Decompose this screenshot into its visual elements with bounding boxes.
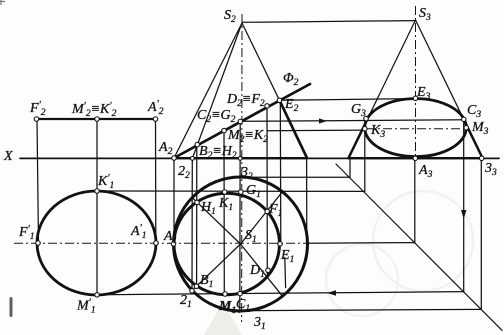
svg-text:X: X bbox=[3, 149, 13, 164]
point C3 bbox=[462, 117, 467, 122]
point C2G2 bbox=[238, 119, 243, 124]
point 22 bbox=[191, 157, 195, 161]
wire vertical base corner to plan circle right bbox=[306, 158, 308, 243]
plan generator S1-F1 extended to base circle bbox=[241, 191, 283, 244]
auxiliary view baseline F'2-A'2 (thick) bbox=[37, 118, 156, 120]
wire S2-S3 apex connector bbox=[243, 21, 416, 23]
svg-text:M2≡K2: M2≡K2 bbox=[227, 128, 268, 145]
major axis K3-M3 (dash-dot) bbox=[366, 128, 466, 130]
45 degree transfer line bbox=[336, 164, 502, 330]
point M'2K'2 bbox=[95, 117, 100, 122]
wire vertical E1 to plan ellipse edge bbox=[284, 258, 287, 288]
svg-text:D2≡F2: D2≡F2 bbox=[226, 92, 265, 109]
point M'1 bbox=[95, 293, 100, 298]
point K'1 bbox=[95, 189, 100, 194]
wire vertical up to A3 bbox=[414, 158, 416, 242]
wire vertical M2K2-M1 bbox=[223, 131, 225, 292]
transfer M2K2 to K3 bbox=[268, 129, 365, 132]
cone frontal right generator lower (thick outline) bbox=[280, 100, 308, 158]
point A3 bbox=[413, 156, 418, 161]
point E3 bbox=[413, 96, 418, 101]
point 32 bbox=[238, 157, 242, 161]
corner artifact top-left bbox=[0, 0, 5, 5]
cutting plane trace Phi2 (thick) bbox=[174, 84, 310, 158]
transfer C2G2 to C3 bbox=[244, 120, 464, 122]
point K3 bbox=[363, 126, 368, 131]
wire vertical up to K3 G3 bbox=[364, 119, 366, 191]
transfer K'1-K1 to 45 line bbox=[97, 190, 365, 192]
wire vertical 32-31 C2G2-C1 bbox=[239, 122, 241, 311]
point D2F2 bbox=[265, 104, 270, 109]
transfer plan circle top to profile base corner bbox=[241, 176, 351, 178]
point G1 bbox=[239, 190, 244, 195]
point M2K2 bbox=[222, 128, 227, 133]
wire vertical up to C3 M3 bbox=[463, 120, 465, 292]
arrow down on C3M3 vertical bbox=[461, 210, 466, 219]
true shape ellipse (thick) bbox=[37, 191, 156, 295]
point 21 bbox=[190, 289, 195, 294]
point E1 bbox=[278, 242, 283, 247]
transfer A depth line bbox=[307, 242, 415, 245]
generator S2 to point 22 bbox=[192, 23, 242, 158]
cone profile right generator upper (thin) bbox=[416, 20, 465, 120]
point 31 (filled) bbox=[238, 310, 241, 313]
point 33 bbox=[479, 156, 484, 161]
point M1 bbox=[223, 292, 228, 297]
transfer M'1-M1-C1 to 45 line bbox=[97, 292, 464, 295]
point C1 bbox=[238, 291, 243, 296]
wire vertical A2-A1 bbox=[173, 158, 175, 242]
point A'1 bbox=[154, 241, 159, 246]
point D1 bbox=[266, 268, 271, 273]
arrow right on C2G2 transfer bbox=[319, 118, 327, 123]
point E2 bbox=[277, 98, 282, 103]
wire vertical to profile left corner bbox=[349, 158, 351, 177]
edge smudge bottom-left bbox=[10, 297, 13, 317]
transfer E2 to E3 bbox=[282, 99, 416, 101]
point K1 bbox=[222, 190, 227, 195]
watermark circle small bbox=[326, 244, 398, 316]
point A2 bbox=[172, 156, 177, 161]
point H1 bbox=[195, 200, 200, 205]
wire vertical up to 33 bbox=[480, 158, 482, 309]
cone base circle in plan (thick) bbox=[174, 177, 308, 311]
plan generator S1-D1 extended to base circle bbox=[241, 244, 284, 297]
point B2H2 bbox=[195, 142, 200, 147]
point F'2 bbox=[34, 117, 39, 122]
arrow left on M transfer bbox=[327, 290, 336, 296]
cone profile base (thick) bbox=[349, 157, 483, 159]
section ellipse in profile (thick) bbox=[365, 99, 467, 157]
X axis bbox=[20, 157, 499, 159]
transfer 31 depth line bbox=[248, 309, 481, 310]
point M3 bbox=[464, 125, 469, 130]
axis of cone profile (dash-dot) bbox=[415, 6, 417, 158]
point F'1 bbox=[36, 241, 41, 246]
horizontal centre line plan and true shape (dash-dot) bbox=[14, 242, 310, 244]
point S1 (filled) bbox=[239, 243, 242, 246]
watermark wedge bottom-center bbox=[204, 302, 242, 335]
axis of cone frontal and plan (dash-dot) bbox=[241, 14, 243, 322]
svg-text:C2≡G2: C2≡G2 bbox=[197, 108, 236, 125]
point G3 bbox=[364, 116, 369, 121]
plan generator S1-H1 extended to base circle bbox=[192, 198, 240, 244]
cone frontal left generator (thin) bbox=[174, 23, 242, 158]
cone profile right generator lower (thick outline) bbox=[464, 120, 482, 158]
wire vertical M'2K'2-M'1 bbox=[96, 119, 98, 295]
cone profile left generator lower (thick outline) bbox=[349, 120, 367, 158]
point F1 bbox=[265, 209, 270, 214]
wire vertical F'2-F'1 bbox=[37, 119, 39, 243]
wire vertical 22-21 bbox=[191, 158, 193, 288]
watermark circle large bbox=[373, 191, 473, 291]
cone profile left generator upper (thin) bbox=[367, 20, 416, 120]
cone frontal right generator upper (thin) bbox=[242, 23, 280, 100]
cone frontal base (thick) bbox=[174, 157, 307, 159]
section ellipse in plan (thick) bbox=[174, 193, 280, 295]
wire vertical B2H2-B1 bbox=[196, 146, 198, 285]
point A'2 bbox=[153, 117, 158, 122]
wire vertical D2F2-D1 bbox=[266, 107, 268, 274]
svg-text:B2≡H2: B2≡H2 bbox=[199, 144, 237, 161]
plan generator S1-21 through B1 bbox=[192, 244, 241, 291]
wire vertical A'2-A'1 bbox=[155, 119, 157, 243]
point B1 bbox=[194, 284, 199, 289]
wire vertical E2-E1 bbox=[279, 101, 282, 244]
point A1 bbox=[171, 242, 176, 247]
